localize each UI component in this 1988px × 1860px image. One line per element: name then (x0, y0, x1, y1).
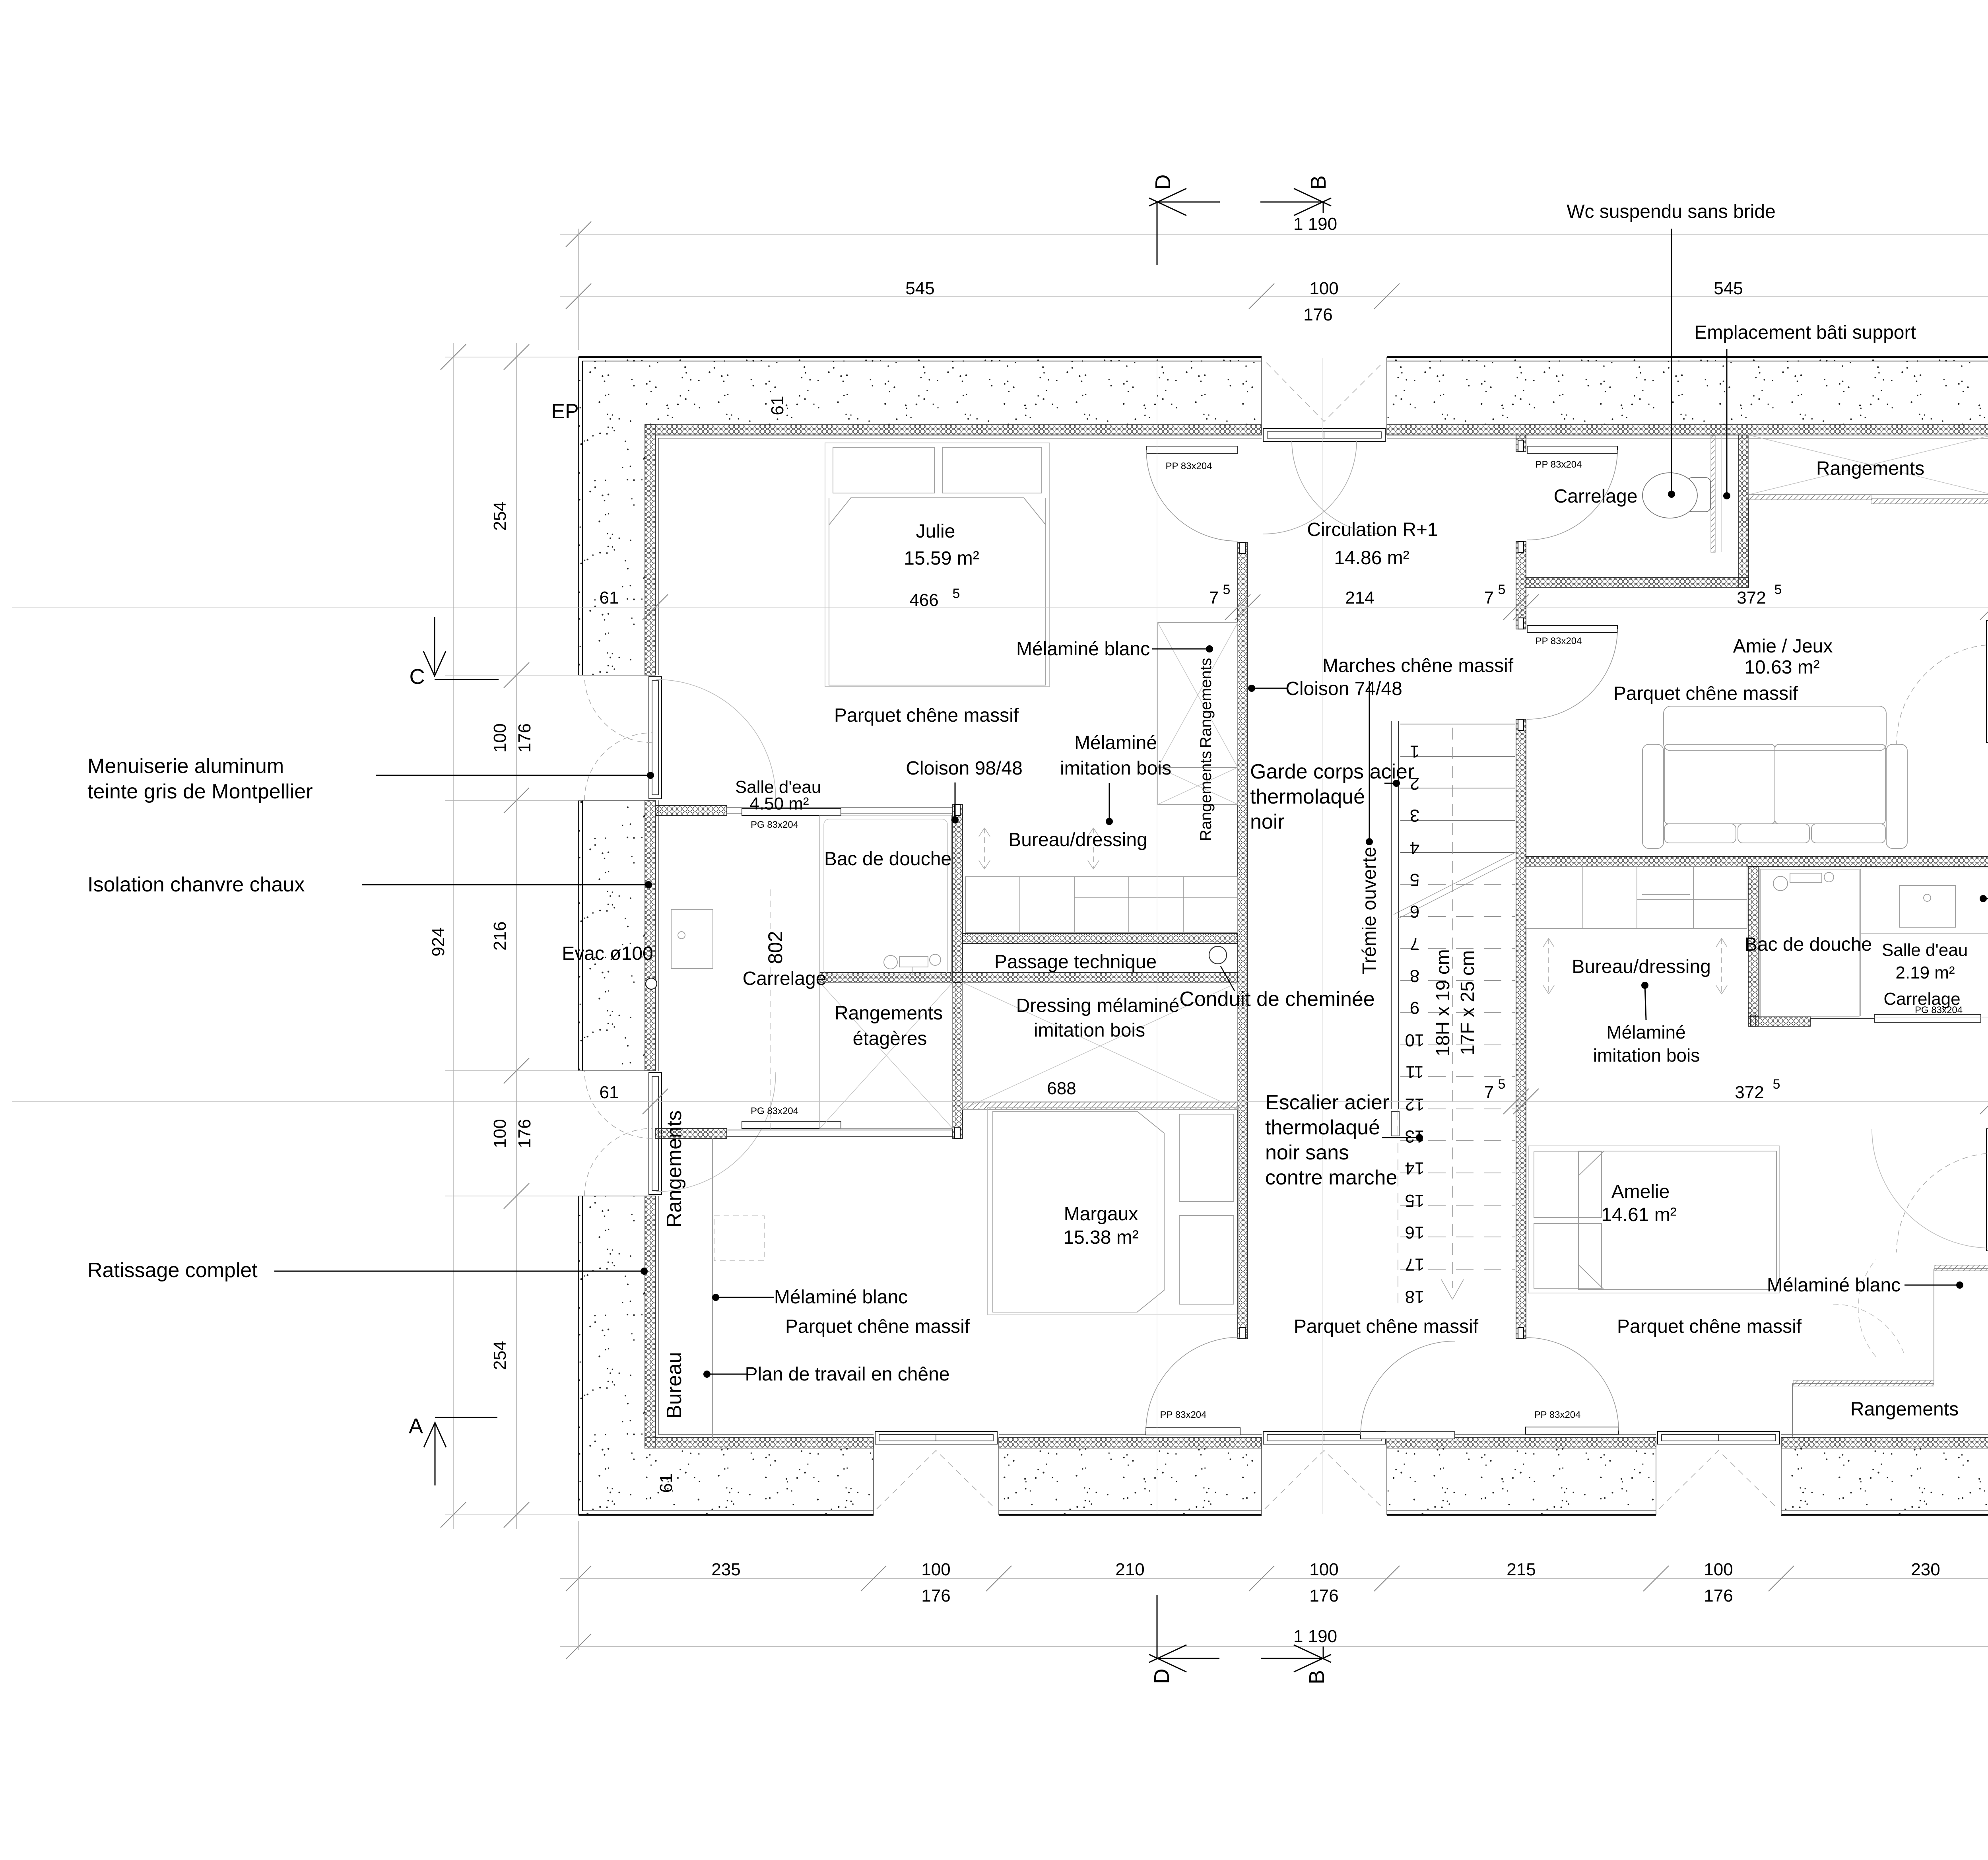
svg-text:PG 83x204: PG 83x204 (751, 819, 798, 830)
door Margaux (1146, 1337, 1240, 1435)
section line B vertical (1322, 358, 1323, 1514)
svg-text:D: D (1150, 1669, 1174, 1684)
pocket wall salle d'eau 1 top (727, 807, 953, 814)
wc toilet (1642, 473, 1710, 518)
closet strip Margaux line (712, 1138, 713, 1438)
svg-text:B: B (1307, 175, 1330, 190)
svg-text:thermolaqué: thermolaqué (1250, 785, 1365, 808)
sliding door panel salle d'eau 1 top (742, 808, 841, 815)
conduit de cheminee circle (1209, 946, 1227, 964)
bed Julie outline (825, 443, 1050, 687)
svg-text:PP 83x204: PP 83x204 (1534, 1410, 1581, 1420)
svg-text:216: 216 (490, 921, 510, 950)
section marker B bottom (1261, 1645, 1331, 1684)
cabinets bureau/dressing Amelie (1526, 866, 1747, 928)
svg-text:15.38 m²: 15.38 m² (1063, 1227, 1138, 1248)
right note meuble vasque (1980, 887, 1988, 911)
svg-text:176: 176 (1303, 305, 1332, 324)
room label Margaux (1063, 1204, 1138, 1248)
svg-text:Rangements: Rangements (1816, 458, 1924, 479)
svg-text:924: 924 (429, 927, 448, 956)
svg-text:100: 100 (1309, 279, 1338, 298)
section line D vertical (1157, 358, 1157, 1514)
top dimension labels (905, 214, 1743, 324)
svg-text:Carrelage: Carrelage (743, 968, 827, 989)
svg-text:176: 176 (921, 1586, 950, 1606)
label Escalier (1265, 1091, 1423, 1189)
wc bati inner line (1721, 436, 1722, 552)
svg-text:1 190: 1 190 (1293, 1627, 1337, 1646)
svg-text:17F x 25 cm: 17F x 25 cm (1457, 950, 1478, 1055)
svg-text:Amie / Jeux: Amie / Jeux (1733, 636, 1833, 657)
left dimension labels (429, 501, 534, 1370)
left note menuiserie (87, 755, 654, 803)
partition right of stair upper segment (1516, 435, 1526, 451)
bed Julie pillow 1 (833, 447, 934, 493)
svg-text:Bureau/dressing: Bureau/dressing (1008, 829, 1147, 850)
stair tread numbers (1405, 742, 1425, 1307)
svg-text:Evac ø100: Evac ø100 (562, 943, 653, 964)
reference line row1 (12, 607, 1988, 608)
svg-text:Bureau: Bureau (663, 1352, 686, 1419)
svg-text:Garde corps acier: Garde corps acier (1250, 760, 1414, 783)
svg-text:176: 176 (515, 1119, 534, 1148)
label Rangements etageres (835, 1003, 943, 1049)
svg-text:61: 61 (600, 1083, 619, 1102)
svg-text:16: 16 (1405, 1223, 1425, 1242)
desk dashed Margaux (714, 1216, 764, 1261)
svg-text:14.61 m²: 14.61 m² (1601, 1204, 1676, 1225)
in-plan dim row1 ticks (643, 594, 1988, 620)
svg-text:61: 61 (656, 1474, 676, 1493)
svg-text:230: 230 (1911, 1560, 1940, 1579)
closet rangements etageres (820, 982, 953, 1128)
svg-text:Cloison 98/48: Cloison 98/48 (906, 758, 1023, 779)
bed Amelie mattress (1578, 1151, 1776, 1289)
svg-text:Menuiserie aluminum: Menuiserie aluminum (87, 755, 284, 778)
bed Margaux mattress (993, 1111, 1164, 1312)
partition salle d'eau 1 bottom band (655, 1128, 727, 1138)
in-plan dim 466 5 Julie (0, 0, 0, 0)
bed Margaux pillow 1 (1179, 1114, 1234, 1202)
shower fixture salle d'eau 2 (1773, 872, 1834, 891)
room label Salle d'eau 1 (735, 777, 821, 814)
pocket wall salle d'eau 1 bottom (727, 1130, 953, 1137)
svg-text:5: 5 (1773, 1077, 1780, 1092)
room label Amie (1733, 636, 1833, 678)
bed Margaux outline (988, 1107, 1239, 1315)
svg-text:9: 9 (1410, 998, 1419, 1017)
svg-text:Wc suspendu sans bride: Wc suspendu sans bride (1567, 201, 1776, 222)
svg-text:Dressing mélaminé: Dressing mélaminé (1016, 995, 1180, 1016)
door window2 side leaf (1361, 1341, 1455, 1439)
door Amelie (1526, 1338, 1619, 1434)
vanity salle d'eau 1 (671, 909, 713, 969)
svg-text:EP: EP (551, 400, 579, 423)
svg-text:6: 6 (1410, 902, 1419, 921)
svg-text:Conduit de cheminée: Conduit de cheminée (1179, 988, 1375, 1011)
stair treads and rails (1391, 721, 1520, 1304)
svg-text:Rangements: Rangements (1850, 1399, 1959, 1420)
svg-text:7: 7 (1484, 1083, 1494, 1102)
svg-text:5: 5 (953, 586, 960, 601)
svg-text:Passage technique: Passage technique (994, 951, 1157, 973)
svg-text:Bac de douche: Bac de douche (824, 848, 951, 870)
reference line row2 (12, 1101, 1988, 1102)
partition salle d'eau 2 bottom stub (1748, 1016, 1810, 1026)
bed Julie fold lines (829, 498, 1046, 525)
svg-text:176: 176 (515, 723, 534, 752)
svg-text:Julie: Julie (916, 521, 955, 542)
evac pipe symbol (646, 978, 657, 989)
vanity salle d'eau 2 (1899, 885, 1955, 927)
label Cloison 98/48 (906, 758, 1023, 823)
closet Julie upper (1158, 623, 1238, 767)
partition passage technique bottom / shower divider (820, 973, 1238, 982)
svg-text:466: 466 (909, 590, 938, 610)
partition passage technique top (963, 934, 1238, 944)
closet dressing melamine (963, 982, 1238, 1109)
label Amelie melamine blanc (1767, 1275, 1963, 1296)
section marker D bottom (1149, 1595, 1219, 1684)
bed Julie pillow 2 (942, 447, 1042, 493)
svg-text:Rangements: Rangements (1197, 751, 1215, 841)
svg-text:4: 4 (1410, 838, 1419, 858)
svg-text:PP 83x204: PP 83x204 (1166, 461, 1212, 472)
left note isolation (87, 873, 652, 896)
svg-text:100: 100 (921, 1560, 950, 1579)
closet rangements top right (1749, 435, 1988, 504)
label Marches chene (1322, 655, 1514, 845)
svg-text:5: 5 (1410, 870, 1419, 889)
stair dim 7 5 row2 extra (0, 0, 0, 0)
svg-text:Mélaminé blanc: Mélaminé blanc (1016, 639, 1150, 660)
svg-text:14.86 m²: 14.86 m² (1334, 548, 1409, 569)
svg-text:18H x 19 cm: 18H x 19 cm (1433, 949, 1454, 1056)
sliding door panel salle d'eau 1 bottom (742, 1121, 841, 1128)
svg-text:3: 3 (1410, 806, 1419, 825)
svg-text:210: 210 (1115, 1560, 1144, 1579)
svg-text:Parquet chêne massif: Parquet chêne massif (785, 1316, 970, 1337)
shower fixture salle d'eau 1 (884, 954, 941, 975)
svg-text:11: 11 (1406, 1062, 1424, 1082)
partition cloison 74/48 left of stair (1238, 542, 1248, 1339)
svg-text:Mélaminé blanc: Mélaminé blanc (774, 1287, 908, 1308)
svg-text:Mélaminé: Mélaminé (1606, 1022, 1685, 1043)
partition amie bottom wall (1526, 856, 1988, 866)
svg-text:7: 7 (1484, 588, 1494, 608)
room label Circulation (1307, 519, 1438, 569)
svg-text:215: 215 (1507, 1560, 1536, 1579)
svg-text:100: 100 (1704, 1560, 1733, 1579)
svg-text:étagères: étagères (853, 1028, 927, 1049)
door Amie/Jeux (1527, 625, 1617, 719)
svg-text:61: 61 (600, 588, 619, 608)
label Conduit (1179, 966, 1375, 1011)
svg-text:PP 83x204: PP 83x204 (1536, 636, 1582, 647)
left note ratissage (87, 1259, 648, 1282)
label Plan de travail (703, 1364, 950, 1385)
svg-text:10.63 m²: 10.63 m² (1744, 657, 1819, 678)
svg-text:1: 1 (1410, 742, 1419, 761)
label Melamine blanc Julie (1016, 639, 1213, 660)
label Melamine imitation left (1060, 732, 1171, 825)
svg-text:Parquet chêne massif: Parquet chêne massif (834, 705, 1019, 726)
svg-text:8: 8 (1410, 966, 1419, 986)
svg-text:A: A (409, 1414, 423, 1438)
exterior wall insulation bands (645, 425, 1988, 1448)
svg-text:Rangements: Rangements (663, 1111, 686, 1228)
svg-text:PP 83x204: PP 83x204 (1160, 1410, 1207, 1420)
leader Wc suspendu (1567, 201, 1776, 498)
svg-text:5: 5 (1774, 582, 1782, 597)
in-plan dim row2 labels (600, 1077, 1988, 1102)
window swing symbols (584, 363, 1988, 1509)
sofa Amie/Jeux (1642, 706, 1907, 848)
partition right of stair mid segment (1516, 542, 1526, 629)
bed Amelie pillow 2 (1534, 1223, 1602, 1288)
svg-text:PG 83x204: PG 83x204 (751, 1106, 798, 1116)
window jamb lines (579, 357, 1988, 1515)
svg-text:noir sans: noir sans (1265, 1141, 1349, 1164)
bottom dimension lines (560, 1521, 1988, 1659)
svg-text:4.50 m²: 4.50 m² (749, 794, 809, 814)
room label Julie (904, 521, 979, 569)
wardrobe dashed arrow left 2 (1088, 828, 1099, 869)
room label Amelie (1601, 1181, 1676, 1225)
svg-text:372: 372 (1737, 588, 1766, 608)
partition between shower and bureau (953, 804, 963, 1138)
label Margaux melamine blanc (712, 1287, 908, 1308)
label Dressing melamine (1016, 995, 1180, 1041)
svg-text:imitation bois: imitation bois (1593, 1045, 1700, 1066)
svg-text:15.59 m²: 15.59 m² (904, 548, 979, 569)
bed Julie mattress (829, 498, 1046, 685)
partition salle d'eau 1 top band (655, 806, 727, 815)
in-plan dim row1 labels (600, 582, 1988, 610)
sliding door panel salle d'eau 2 (1810, 1013, 1988, 1024)
leader Emplacement bati (1694, 322, 1916, 499)
svg-text:Circulation R+1: Circulation R+1 (1307, 519, 1438, 540)
svg-text:Mélaminé: Mélaminé (1074, 732, 1157, 753)
svg-text:7: 7 (1209, 588, 1219, 608)
svg-text:Parquet chêne massif: Parquet chêne massif (1613, 683, 1798, 704)
wardrobe dashed arrow amelie 1 (1543, 938, 1554, 994)
partition wc bottom wall (1526, 577, 1749, 587)
partition right of stair lower segment (1516, 719, 1526, 1339)
svg-text:802: 802 (764, 931, 786, 964)
partition salle d'eau 2 left wall (1748, 866, 1758, 1026)
label Cloison 74/48 (1248, 678, 1402, 699)
svg-text:7: 7 (1410, 934, 1419, 953)
closet rangements bottom right (1792, 1265, 1988, 1437)
svg-text:Emplacement bâti support: Emplacement bâti support (1694, 322, 1916, 343)
svg-text:Escalier acier: Escalier acier (1265, 1091, 1389, 1114)
svg-text:Rangements: Rangements (835, 1003, 943, 1024)
door WC (1527, 446, 1617, 540)
left dimension lines (441, 343, 579, 1529)
label Melamine imitation right (1593, 982, 1700, 1066)
closet Julie lower (1158, 767, 1238, 804)
room label Salle d'eau 2 (1882, 940, 1968, 982)
closet doors dashed bottom right (1833, 1260, 1904, 1357)
svg-text:Cloison 74/48: Cloison 74/48 (1285, 678, 1402, 699)
svg-text:18: 18 (1405, 1287, 1425, 1307)
svg-text:254: 254 (490, 1341, 510, 1370)
svg-text:2.19 m²: 2.19 m² (1895, 963, 1955, 982)
svg-text:D: D (1151, 175, 1175, 190)
svg-text:5: 5 (1223, 582, 1231, 597)
svg-text:12: 12 (1405, 1095, 1425, 1114)
shower tray salle d'eau 1 (820, 815, 951, 979)
svg-text:545: 545 (1714, 279, 1743, 298)
svg-text:235: 235 (711, 1560, 740, 1579)
svg-text:Rangements: Rangements (1197, 658, 1215, 748)
svg-text:Parquet chêne massif: Parquet chêne massif (1294, 1316, 1479, 1337)
svg-text:thermolaqué: thermolaqué (1265, 1116, 1380, 1139)
section marker B top (1260, 175, 1331, 216)
svg-text:100: 100 (490, 1119, 510, 1148)
svg-text:teinte gris de Montpellier: teinte gris de Montpellier (87, 780, 313, 803)
section marker C left (410, 617, 499, 689)
svg-text:Bac de douche: Bac de douche (1745, 934, 1872, 955)
svg-text:contre marche: contre marche (1265, 1166, 1397, 1189)
exterior wall stipple fill (579, 357, 1988, 1515)
svg-text:Trémie ouverte: Trémie ouverte (1359, 847, 1380, 975)
svg-text:5: 5 (1498, 1077, 1506, 1092)
svg-text:176: 176 (1309, 1586, 1338, 1606)
svg-text:15: 15 (1405, 1191, 1425, 1210)
svg-text:noir: noir (1250, 810, 1285, 833)
svg-text:Plan de travail en chêne: Plan de travail en chêne (745, 1364, 949, 1385)
cabinets bureau/dressing left (965, 877, 1238, 932)
svg-text:61: 61 (768, 396, 787, 415)
shower divider salle d'eau 2 (1860, 869, 1861, 1016)
partition wc right wall (1739, 435, 1749, 587)
svg-text:imitation bois: imitation bois (1034, 1020, 1145, 1041)
dashed projection line salle d'eau (770, 889, 771, 1130)
svg-text:Mélaminé blanc: Mélaminé blanc (1767, 1275, 1901, 1296)
svg-text:545: 545 (905, 279, 934, 298)
top dimension lines (560, 221, 1988, 350)
svg-text:Isolation chanvre chaux: Isolation chanvre chaux (87, 873, 305, 896)
svg-text:100: 100 (1309, 1560, 1338, 1579)
svg-text:372: 372 (1735, 1083, 1764, 1102)
svg-text:Carrelage: Carrelage (1554, 486, 1638, 507)
wc bati support duct (1711, 436, 1715, 552)
svg-text:Marches chêne massif: Marches chêne massif (1322, 655, 1514, 676)
svg-text:1 190: 1 190 (1293, 214, 1337, 234)
svg-text:Amelie: Amelie (1611, 1181, 1670, 1202)
svg-text:214: 214 (1345, 588, 1374, 608)
svg-text:10: 10 (1405, 1030, 1425, 1050)
svg-text:176: 176 (1704, 1586, 1733, 1606)
bed Amelie outline (1529, 1146, 1779, 1293)
interior wall face lines (655, 435, 1988, 1438)
salle d'eau 2 room inner line (1759, 868, 1988, 1017)
svg-text:100: 100 (490, 723, 510, 752)
bed Amelie pillow 1 (1534, 1152, 1602, 1217)
svg-text:254: 254 (490, 501, 510, 530)
wardrobe dashed arrow left 1 (979, 828, 990, 869)
bed Margaux pillow 2 (1179, 1215, 1234, 1304)
window frames (649, 429, 1988, 1444)
svg-text:Salle d'eau: Salle d'eau (1882, 940, 1968, 960)
svg-text:17: 17 (1405, 1254, 1425, 1274)
svg-text:Bureau/dressing: Bureau/dressing (1572, 956, 1711, 977)
bottom dimension labels (711, 1560, 1940, 1646)
section marker A left (409, 1414, 497, 1485)
label Garde corps (1250, 760, 1414, 833)
svg-text:14: 14 (1405, 1159, 1425, 1178)
svg-text:Margaux: Margaux (1064, 1204, 1138, 1225)
salle d'eau 2 zone line (1861, 933, 1988, 934)
wardrobe dashed arrow amelie 2 (1716, 938, 1727, 994)
section marker D top (1149, 175, 1220, 266)
in-plan dim row2 ticks (643, 1089, 1988, 1114)
svg-text:Ratissage complet: Ratissage complet (87, 1259, 258, 1282)
svg-text:688: 688 (1047, 1079, 1076, 1098)
svg-text:B: B (1305, 1670, 1329, 1684)
svg-text:PG 83x204: PG 83x204 (1915, 1005, 1963, 1015)
salle d'eau 2 tray outline (1761, 869, 1859, 1016)
svg-text:C: C (410, 665, 425, 689)
exterior wall outer boundary lines (579, 357, 1988, 1515)
svg-text:Parquet chêne massif: Parquet chêne massif (1617, 1316, 1802, 1337)
svg-text:imitation bois: imitation bois (1060, 758, 1171, 779)
svg-text:PP 83x204: PP 83x204 (1536, 459, 1582, 470)
door Julie room (1146, 446, 1238, 541)
svg-text:5: 5 (1498, 582, 1506, 597)
